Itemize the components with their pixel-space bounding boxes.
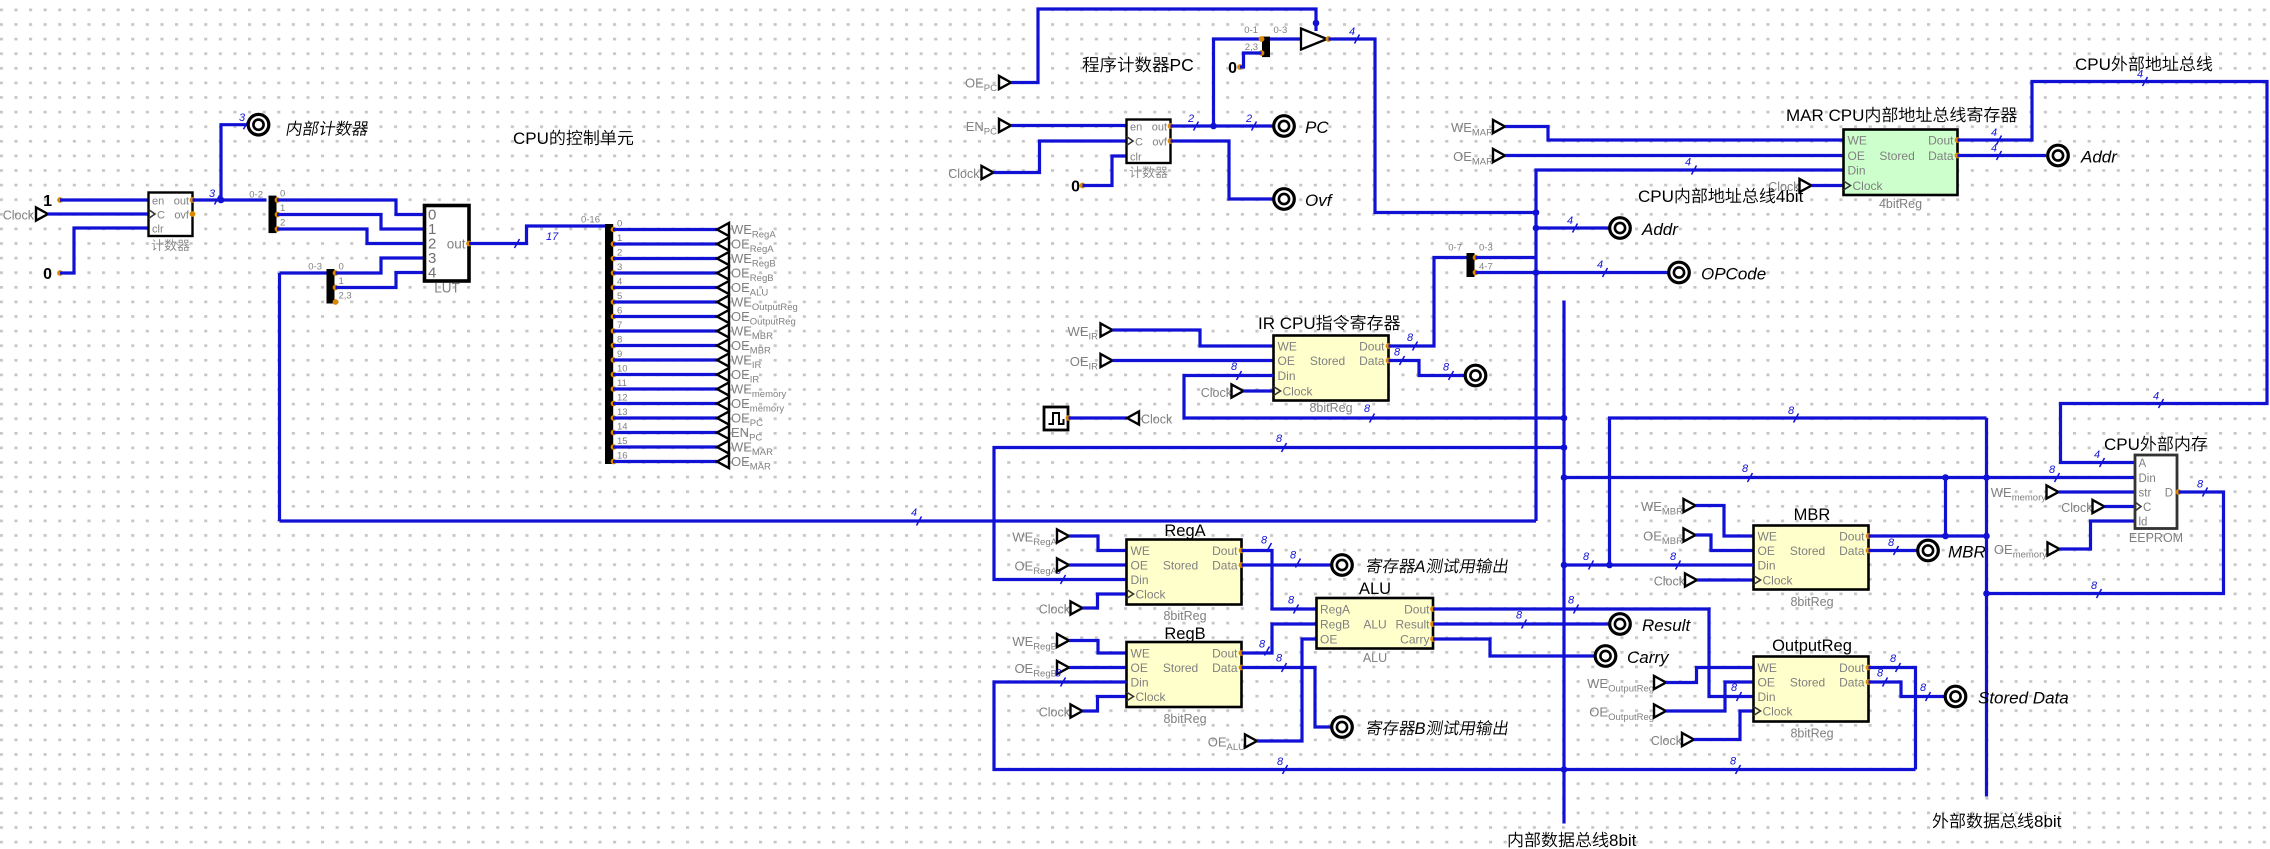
svg-text:Din: Din <box>1758 559 1776 573</box>
svg-text:RegA: RegA <box>752 230 776 241</box>
register MAR box <box>1844 130 1958 196</box>
tunnel WE_OutputReg <box>717 295 729 308</box>
svg-text:Clock: Clock <box>1136 690 1167 704</box>
wire Clock to IR Clock <box>1244 389 1274 392</box>
svg-text:4: 4 <box>1567 215 1573 227</box>
svg-text:4: 4 <box>2137 69 2143 81</box>
output pin PC <box>1274 116 1295 137</box>
svg-text:IR: IR <box>752 360 762 371</box>
LUT U2 control store <box>425 206 470 282</box>
output pin IR value <box>1465 365 1486 386</box>
counter U1 (internal counter) <box>149 193 193 237</box>
svg-text:4: 4 <box>1685 157 1691 169</box>
output pin RegA test <box>1332 555 1353 576</box>
wire ALU Result to pin <box>1433 622 1609 625</box>
junction bus2/bottom bus <box>1561 766 1568 773</box>
svg-text:RegA: RegA <box>750 244 774 255</box>
svg-text:7: 7 <box>617 320 622 331</box>
wire control bit 4 to tunnel OE_ALU <box>613 286 717 289</box>
svg-text:OPCode: OPCode <box>1701 265 1766 284</box>
wire riser and row to external bus <box>1610 418 1987 565</box>
svg-text:RegA: RegA <box>1164 522 1205 540</box>
wire SP4 high nibble to OPCode pin <box>1476 271 1669 274</box>
wire Clock to OutputReg Clock <box>1694 711 1754 740</box>
svg-text:Din: Din <box>1131 573 1149 587</box>
splitter SP17 17-bit control word fanout <box>605 224 613 464</box>
svg-text:OE: OE <box>731 367 750 382</box>
register RegB box <box>1127 642 1242 707</box>
tunnel Clock arrow <box>36 207 48 220</box>
wire OE_memory to EEPROM ld <box>2060 521 2136 549</box>
svg-text:8: 8 <box>1290 550 1297 562</box>
junction Din row / MBR riser <box>1942 474 1949 481</box>
svg-text:OE: OE <box>1278 354 1295 368</box>
wire to internal counter pin <box>221 125 248 200</box>
svg-text:4-7: 4-7 <box>1479 262 1493 273</box>
wire OE_IR to IR OE <box>1113 359 1274 362</box>
svg-text:8: 8 <box>1443 362 1450 374</box>
svg-text:3: 3 <box>209 188 216 200</box>
svg-text:Dout: Dout <box>1404 603 1430 617</box>
svg-text:memory: memory <box>752 389 787 400</box>
junction bus3/MBR Dout row <box>1983 533 1990 540</box>
tunnel WE_IR <box>717 353 729 366</box>
svg-text:OE: OE <box>731 338 750 353</box>
tristate buffer B1 <box>1301 29 1327 50</box>
svg-text:RegA: RegA <box>1033 537 1057 548</box>
wire const0 to counter clr <box>60 228 149 273</box>
svg-text:OE: OE <box>731 411 750 426</box>
svg-text:OE: OE <box>1994 542 2013 557</box>
svg-text:D: D <box>2165 488 2173 500</box>
svg-text:OE: OE <box>1758 544 1775 558</box>
svg-text:4: 4 <box>428 265 436 282</box>
ALU U4 <box>1317 598 1434 649</box>
wire control bit 0 to tunnel WE_RegA <box>613 228 717 231</box>
svg-text:0: 0 <box>617 219 622 230</box>
wire OE_MAR to MAR OE <box>1505 154 1844 157</box>
tunnel Clock MAR arrow <box>1800 179 1812 192</box>
wire bottom data loop to RegB Din <box>994 682 1916 770</box>
wire ovf to Ovf pin <box>1171 141 1274 199</box>
svg-text:OutputReg: OutputReg <box>1608 712 1654 723</box>
svg-text:8: 8 <box>1516 610 1523 622</box>
EEPROM U5 external memory <box>2135 455 2177 529</box>
wire WE_RegB to RegB WE <box>1069 641 1127 654</box>
wire MAR stored data to Addr pin <box>1958 154 2047 157</box>
svg-text:OE: OE <box>1131 661 1148 675</box>
svg-text:OE: OE <box>731 454 750 469</box>
svg-text:Data: Data <box>1928 149 1954 163</box>
tunnel WE_RegB <box>717 252 729 265</box>
svg-text:CPU: CPU <box>513 129 549 148</box>
svg-text:2: 2 <box>617 248 622 259</box>
svg-text:ovf: ovf <box>1152 137 1168 149</box>
svg-text:WE: WE <box>731 251 752 266</box>
svg-text:PC: PC <box>984 83 997 94</box>
wire MBR Dout row <box>1869 534 1987 537</box>
caption of PC counter <box>1130 166 1142 178</box>
svg-text:8: 8 <box>1670 551 1677 563</box>
tunnel EN_PC <box>717 426 729 439</box>
svg-text:1: 1 <box>617 233 622 244</box>
svg-text:Clock: Clock <box>1201 386 1233 400</box>
tunnel Clock RegA arrow <box>1071 601 1083 614</box>
svg-text:WE: WE <box>731 222 752 237</box>
svg-text:Din: Din <box>2139 473 2156 485</box>
svg-text:8: 8 <box>1055 668 1062 680</box>
wire 4bit bus vertical left <box>278 273 281 521</box>
svg-text:4: 4 <box>617 277 622 288</box>
svg-text:IR: IR <box>1089 332 1099 343</box>
svg-text:OE: OE <box>1643 529 1662 544</box>
svg-text:OE: OE <box>1014 661 1033 676</box>
svg-text:0: 0 <box>1228 60 1237 77</box>
wire internal bus to RegA Din <box>994 448 1564 580</box>
svg-text:IR: IR <box>1089 362 1099 373</box>
tunnel Clock IR arrow <box>1232 384 1244 397</box>
wire WE_memory to EEPROM str <box>2059 490 2136 493</box>
svg-text:Dout: Dout <box>1212 647 1238 661</box>
svg-text:4bit: 4bit <box>1776 187 1804 206</box>
wire const0 to SP3 <box>1240 53 1262 67</box>
svg-text:2: 2 <box>280 218 285 229</box>
svg-text:0: 0 <box>339 262 344 273</box>
tunnel OE_memory <box>717 397 729 410</box>
svg-text:WE: WE <box>1991 485 2012 500</box>
wire PC counter out to PC pin <box>1171 124 1274 127</box>
wire SP1 bit1 to LUT in1 <box>277 215 425 230</box>
svg-text:Clock: Clock <box>1136 588 1167 602</box>
junction bus2/IR Din row <box>1561 415 1568 422</box>
svg-text:ld: ld <box>2139 517 2148 529</box>
svg-text:8: 8 <box>1888 537 1895 549</box>
svg-text:PC: PC <box>750 418 763 429</box>
svg-text:8: 8 <box>1288 595 1295 607</box>
tunnel OE_MBR arrow <box>1684 528 1696 541</box>
junction bus2/EEPROM Din row <box>1561 474 1568 481</box>
svg-text:17: 17 <box>546 231 559 243</box>
wire internal bus to MBR Din <box>1564 563 1754 566</box>
junction counter out <box>218 197 225 204</box>
junction addr bus / Addr pin <box>1533 225 1540 232</box>
svg-text:C: C <box>2143 502 2151 514</box>
output pin Carry <box>1595 646 1616 667</box>
svg-text:8: 8 <box>1788 405 1795 417</box>
svg-text:OutputReg: OutputReg <box>1772 637 1852 655</box>
output pin Ovf <box>1274 189 1295 210</box>
svg-text:8: 8 <box>2091 580 2098 592</box>
tunnel WE_memory arrow <box>2047 485 2059 498</box>
wire SP2 bit0 to LUT in3 <box>336 258 425 273</box>
tunnel WE_RegB arrow <box>1057 634 1069 647</box>
svg-text:Din: Din <box>1848 164 1866 178</box>
svg-text:Data: Data <box>1212 559 1238 573</box>
tunnel OE_MAR <box>717 455 729 468</box>
tunnel EN_PC arrow <box>999 119 1011 132</box>
wire OE_RegB to RegB OE <box>1069 666 1127 669</box>
wire IR stored data to test pin <box>1389 361 1465 376</box>
svg-text:5: 5 <box>617 291 622 302</box>
svg-text:Dout: Dout <box>1212 544 1238 558</box>
wire control bit 16 to tunnel OE_MAR <box>613 460 717 463</box>
svg-text:Dout: Dout <box>1928 134 1954 148</box>
svg-text:ALU: ALU <box>1227 742 1246 753</box>
svg-text:OE: OE <box>1848 149 1865 163</box>
svg-text:OutputReg: OutputReg <box>1608 684 1654 695</box>
wire IR Dout to splitter SP4 <box>1389 258 1467 347</box>
output pin Addr (external) <box>2048 145 2069 166</box>
junction bus3/EEPROM Din row <box>1983 474 1990 481</box>
wire WE_MBR to MBR WE <box>1696 506 1754 537</box>
tunnel Clock PC arrow <box>982 166 994 179</box>
svg-text:C: C <box>1135 137 1143 149</box>
svg-text:OE: OE <box>1589 705 1608 720</box>
svg-text:MBR: MBR <box>1662 507 1683 518</box>
wire clock to counter C <box>48 212 149 215</box>
svg-text:RegB: RegB <box>1320 618 1350 632</box>
svg-text:0-3: 0-3 <box>1479 243 1493 254</box>
junction addr bus / tristate <box>1533 209 1540 216</box>
svg-text:RegB: RegB <box>1164 625 1205 643</box>
wire Clock to MBR Clock <box>1697 578 1754 581</box>
wire addr bus to MAR Din <box>1536 170 1844 521</box>
svg-text:4: 4 <box>2153 391 2159 403</box>
svg-text:LUT: LUT <box>434 281 460 296</box>
output pin Addr (internal) <box>1610 218 1631 239</box>
svg-text:str: str <box>2139 488 2152 500</box>
counter U3 program counter <box>1127 120 1171 164</box>
tunnel Clock MBR arrow <box>1685 573 1697 586</box>
svg-text:RegB: RegB <box>1033 642 1057 653</box>
svg-text:OE: OE <box>1070 354 1089 369</box>
svg-text:WE: WE <box>1278 340 1297 354</box>
svg-text:Carry: Carry <box>1627 648 1670 667</box>
svg-text:OE: OE <box>731 280 750 295</box>
svg-text:MBR: MBR <box>1794 506 1831 524</box>
register RegA box <box>1127 540 1242 605</box>
label 程序计数器PC <box>1083 57 1099 73</box>
svg-text:Data: Data <box>1359 354 1385 368</box>
svg-text:MBR: MBR <box>752 331 773 342</box>
wire WE_IR to IR WE <box>1113 330 1274 346</box>
tunnel OE_RegA arrow <box>1057 558 1069 571</box>
svg-text:Data: Data <box>1839 544 1865 558</box>
svg-text:ALU: ALU <box>750 288 769 299</box>
wire SP2 bit1 to LUT in4 <box>336 273 425 288</box>
svg-text:14: 14 <box>617 422 628 433</box>
svg-text:Stored Data: Stored Data <box>1978 689 2069 708</box>
svg-text:MAR CPU: MAR CPU <box>1786 106 1864 125</box>
wire OE_PC to tristate enable <box>1011 9 1316 83</box>
wire Clock to MAR Clock <box>1812 184 1844 187</box>
svg-text:4: 4 <box>911 507 917 519</box>
svg-text:8bit: 8bit <box>2034 812 2062 831</box>
wire control bit 14 to tunnel EN_PC <box>613 431 717 434</box>
svg-text:16: 16 <box>617 451 628 462</box>
svg-text:MBR: MBR <box>1948 543 1986 562</box>
wire EN_PC to PC counter en <box>1011 124 1127 127</box>
wire to Addr pin <box>1536 226 1609 229</box>
svg-text:RegB: RegB <box>752 259 776 270</box>
svg-text:CPU: CPU <box>2075 55 2111 74</box>
svg-text:Clock: Clock <box>1763 574 1794 588</box>
junction MBR Din / riser <box>1606 562 1613 569</box>
svg-text:10: 10 <box>617 364 628 375</box>
svg-text:IR CPU: IR CPU <box>1258 314 1316 333</box>
tunnel OE_ALU <box>717 281 729 294</box>
wire RegB stored data to test pin <box>1242 668 1332 728</box>
svg-text:memory: memory <box>2012 493 2047 504</box>
svg-text:OE: OE <box>731 309 750 324</box>
wire Clock to RegB Clock <box>1083 697 1127 712</box>
svg-text:WE: WE <box>731 382 752 397</box>
svg-text:WE: WE <box>1012 634 1033 649</box>
svg-text:Stored: Stored <box>1790 676 1825 690</box>
svg-text:OE: OE <box>1320 633 1337 647</box>
svg-text:8: 8 <box>1568 595 1575 607</box>
svg-text:PC: PC <box>984 127 997 138</box>
wire MAR Dout external address bus to EEPROM A <box>1958 82 2268 463</box>
svg-text:Carry: Carry <box>1400 633 1429 647</box>
tunnel OE_OutputReg arrow <box>1654 704 1666 717</box>
svg-text:Din: Din <box>1758 690 1776 704</box>
svg-text:8: 8 <box>1276 433 1283 445</box>
svg-text:2: 2 <box>1245 113 1252 125</box>
junction bus2/MBR Din row <box>1561 562 1568 569</box>
svg-text:EN: EN <box>731 425 749 440</box>
svg-text:WE: WE <box>1587 676 1608 691</box>
label 寄存器A测试用输出 <box>1366 558 1383 573</box>
svg-text:Stored: Stored <box>1163 661 1198 675</box>
register IR box <box>1274 336 1389 401</box>
svg-text:0-7: 0-7 <box>1448 243 1462 254</box>
svg-text:Din: Din <box>1278 369 1296 383</box>
label 内部计数器 <box>286 121 302 136</box>
svg-text:MAR: MAR <box>1472 157 1493 168</box>
svg-text:1: 1 <box>339 276 344 287</box>
svg-text:15: 15 <box>617 436 628 447</box>
tunnel Clock OutputReg arrow <box>1682 733 1694 746</box>
tunnel OE_ALU arrow <box>1245 734 1257 747</box>
wire RegB Dout to ALU RegB <box>1242 624 1317 653</box>
svg-text:8bitReg: 8bitReg <box>1790 595 1833 609</box>
svg-text:8: 8 <box>1407 332 1414 344</box>
clock generator device <box>1044 407 1068 430</box>
svg-text:8bitReg: 8bitReg <box>1790 727 1833 741</box>
svg-text:WE: WE <box>1131 544 1150 558</box>
wire control bit 9 to tunnel WE_IR <box>613 358 717 361</box>
tunnel OE_memory arrow <box>2048 542 2060 555</box>
wire tristate out to internal addr bus <box>1329 39 1537 213</box>
svg-text:3: 3 <box>239 112 246 124</box>
wire external data bus vertical <box>1985 418 1988 797</box>
svg-text:EEPROM: EEPROM <box>2129 531 2183 545</box>
tunnel OE_OutputReg <box>717 310 729 323</box>
svg-text:MAR: MAR <box>750 462 771 473</box>
wire control bit 7 to tunnel WE_MBR <box>613 329 717 332</box>
junction bus2/RegA feed row <box>1561 444 1568 451</box>
svg-text:8: 8 <box>1583 551 1590 563</box>
wire SP3 to tristate in <box>1270 37 1301 40</box>
svg-text:0-2: 0-2 <box>249 190 263 201</box>
svg-text:13: 13 <box>617 407 628 418</box>
svg-text:WE: WE <box>1641 499 1662 514</box>
wire stored data to pin <box>1869 682 1945 697</box>
tunnel Clock EEPROM arrow <box>2093 500 2105 513</box>
wire EEPROM Din row <box>1564 476 2135 479</box>
svg-text:WE: WE <box>731 440 752 455</box>
wire OE_MBR to MBR OE <box>1696 535 1754 551</box>
wire OE_RegA to RegA OE <box>1069 563 1127 566</box>
wire RegA stored data to test pin <box>1242 563 1332 566</box>
tunnel OE_PC <box>717 411 729 424</box>
tunnel OE_RegB <box>717 266 729 279</box>
wire control bit 13 to tunnel OE_PC <box>613 416 717 419</box>
tunnel OE_RegB arrow <box>1057 661 1069 674</box>
wire control bit 10 to tunnel OE_IR <box>613 373 717 376</box>
tunnel WE_MAR <box>717 440 729 453</box>
svg-text:Ovf: Ovf <box>1305 191 1334 210</box>
svg-text:WE: WE <box>731 353 752 368</box>
svg-text:11: 11 <box>617 378 627 389</box>
svg-text:CPU: CPU <box>2104 435 2140 454</box>
wire control bit 5 to tunnel WE_OutputReg <box>613 300 717 303</box>
wire PC value up to splitter SP3 <box>1214 39 1262 126</box>
svg-text:OE: OE <box>1208 735 1227 750</box>
svg-text:WE: WE <box>1068 324 1089 339</box>
svg-text:Clock: Clock <box>1039 706 1071 720</box>
svg-text:A: A <box>1414 558 1426 576</box>
svg-text:Clock: Clock <box>1763 705 1794 719</box>
svg-text:Stored: Stored <box>1879 149 1914 163</box>
svg-text:8: 8 <box>1742 463 1749 475</box>
tunnel Clock source arrow <box>1127 411 1139 424</box>
wire control bit 3 to tunnel OE_RegB <box>613 271 717 274</box>
svg-text:OE: OE <box>1014 559 1033 574</box>
svg-text:8: 8 <box>1920 682 1927 694</box>
svg-text:Data: Data <box>1212 661 1238 675</box>
svg-text:0-3: 0-3 <box>1274 25 1288 36</box>
tunnel OE_IR arrow <box>1101 354 1113 367</box>
tunnel WE_memory <box>717 382 729 395</box>
tunnel WE_MAR arrow <box>1493 120 1505 133</box>
svg-text:WE: WE <box>1451 120 1472 135</box>
wire riser MBR Dout to EEPROM Din row <box>1944 478 1947 537</box>
svg-text:Clock: Clock <box>3 209 35 223</box>
tunnel OE_PC arrow <box>999 76 1011 89</box>
svg-text:OE: OE <box>1758 676 1775 690</box>
svg-text:MBR: MBR <box>1662 536 1683 547</box>
tunnel WE_IR arrow <box>1101 323 1113 336</box>
wire control bit 1 to tunnel OE_RegA <box>613 242 717 245</box>
svg-text:2,3: 2,3 <box>339 291 352 302</box>
wire SP1 bit2 to LUT in2 <box>277 229 425 244</box>
svg-text:8: 8 <box>2049 464 2056 476</box>
svg-text:8: 8 <box>1730 756 1737 768</box>
wire counter out to splitter <box>193 198 267 201</box>
wire control bit 2 to tunnel WE_RegB <box>613 257 717 260</box>
label 外部数据总线8bit <box>1933 813 1949 829</box>
svg-text:Stored: Stored <box>1163 559 1198 573</box>
svg-text:8: 8 <box>617 335 622 346</box>
svg-text:Clock: Clock <box>1141 413 1173 427</box>
label 寄存器B测试用输出 <box>1366 720 1383 735</box>
svg-text:en: en <box>152 196 164 208</box>
junction addr bus / opcode row <box>1533 269 1540 276</box>
svg-text:8: 8 <box>1731 682 1738 694</box>
svg-text:WE: WE <box>731 295 752 310</box>
